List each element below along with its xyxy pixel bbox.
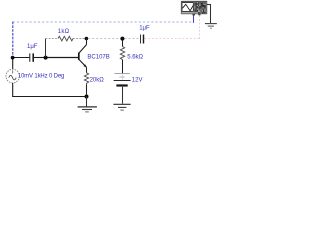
svg-text:20kΩ: 20kΩ xyxy=(90,78,105,84)
svg-text:1μF: 1μF xyxy=(139,26,150,32)
svg-text:1μF: 1μF xyxy=(27,44,38,50)
svg-text:1kΩ: 1kΩ xyxy=(58,29,70,35)
svg-text:BC107B: BC107B xyxy=(87,55,109,61)
svg-text:12V: 12V xyxy=(132,78,143,84)
svg-text:5.6kΩ: 5.6kΩ xyxy=(127,54,143,60)
svg-text:10mV 1kHz 0 Deg: 10mV 1kHz 0 Deg xyxy=(18,74,64,80)
